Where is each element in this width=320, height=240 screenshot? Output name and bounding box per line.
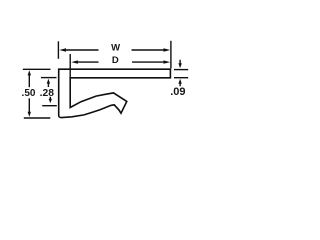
.09 bottom tick <box>174 77 188 79</box>
.50 arrow down <box>28 112 31 117</box>
svg-text:W: W <box>111 42 120 53</box>
W extension line (left) <box>57 41 59 59</box>
.28 top extension tick <box>41 77 57 79</box>
.09 top tick <box>174 69 188 71</box>
svg-text:.09: .09 <box>170 86 185 98</box>
W arrowhead right <box>164 48 171 51</box>
dimension line W <box>66 49 99 51</box>
dimension line D <box>78 61 99 63</box>
svg-text:D: D <box>112 55 119 66</box>
.50 top extension tick <box>23 68 51 70</box>
right extension line <box>170 41 172 69</box>
D arrowhead left <box>71 60 78 63</box>
clip body outline <box>59 69 171 117</box>
.50 arrow up <box>28 70 31 75</box>
svg-text:.28: .28 <box>40 88 55 99</box>
.50 bottom extension tick <box>24 117 51 119</box>
.09 arrow up (below) <box>179 84 181 87</box>
.28 bottom extension tick <box>42 105 57 107</box>
W arrowhead left <box>59 48 66 51</box>
.28 arrow up <box>47 79 50 84</box>
.50 dimension line <box>28 75 30 88</box>
D arrowhead right <box>164 60 171 63</box>
.28 dimension line <box>47 82 49 87</box>
.09 arrow down (above) <box>179 60 181 64</box>
.28 arrow down <box>49 99 52 103</box>
D extension line (left) <box>69 54 71 77</box>
svg-text:.50: .50 <box>22 88 36 99</box>
